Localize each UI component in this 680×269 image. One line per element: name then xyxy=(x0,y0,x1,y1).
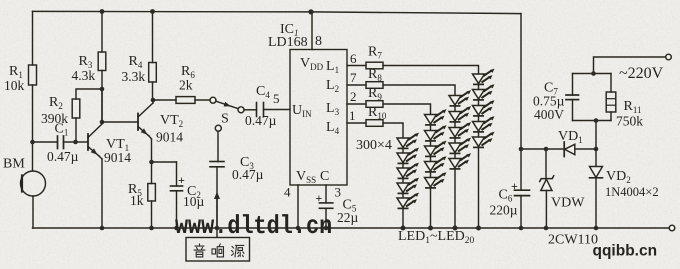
resistor R4 xyxy=(149,12,157,101)
capacitor C6 xyxy=(515,149,530,228)
svg-text:10k: 10k xyxy=(4,78,25,93)
wire BM top xyxy=(32,142,34,171)
LED group D1-D20 xyxy=(397,69,495,209)
transistor VT2 xyxy=(138,100,153,162)
LED D3 (column 1) xyxy=(397,163,419,179)
wire pin 4 VSS xyxy=(297,185,299,228)
svg-text:9014: 9014 xyxy=(156,130,183,145)
svg-text:2CW110: 2CW110 xyxy=(548,233,598,248)
LED D10 (column 2) xyxy=(425,172,447,188)
LED D4 (column 1) xyxy=(397,178,419,194)
resistor R3 xyxy=(98,12,106,123)
microphone BM xyxy=(21,171,46,228)
LED D15 (column 3) xyxy=(449,153,471,169)
LED D7 (column 2) xyxy=(425,125,447,141)
resistor R5 xyxy=(148,162,156,228)
audio source label 音响源 xyxy=(194,244,244,257)
wire base VT1 xyxy=(76,141,89,143)
LED D8 (column 2) xyxy=(425,141,447,157)
capacitor C7 xyxy=(566,74,579,121)
svg-text:+: + xyxy=(316,191,323,205)
terminal bottom right xyxy=(669,225,675,231)
LED D11 (column 3) xyxy=(449,90,471,106)
wire VD1 to C7/R11 xyxy=(595,121,597,150)
wire C7 R11 parallel top/bottom xyxy=(573,73,612,75)
svg-text:6: 6 xyxy=(350,51,357,66)
svg-text:BM: BM xyxy=(3,157,25,172)
svg-text:0.47µ: 0.47µ xyxy=(232,167,264,182)
wire 220V live xyxy=(594,57,666,74)
diode VD2 xyxy=(590,149,603,228)
LED D14 (column 3) xyxy=(449,138,471,154)
wire power feed vertical xyxy=(520,14,522,149)
wire rectifier node horizontal xyxy=(521,148,596,150)
wire LED column 4 xyxy=(478,74,480,228)
diode VD1 xyxy=(564,142,575,157)
LED D12 (column 3) xyxy=(449,106,471,122)
arrow audio source to node xyxy=(214,192,220,238)
svg-text:3.3k: 3.3k xyxy=(122,69,146,84)
terminal 220V top xyxy=(666,54,672,60)
resistor R8 xyxy=(347,82,455,96)
svg-text:1: 1 xyxy=(349,108,356,123)
resistor R1 xyxy=(29,11,37,142)
LED D2 (column 1) xyxy=(397,148,419,164)
wire pin 8 VDD xyxy=(311,12,313,50)
LED D5 (column 1) xyxy=(397,193,419,209)
svg-text:750k: 750k xyxy=(616,114,643,129)
wire top rail xyxy=(33,11,522,13)
svg-text:+: + xyxy=(178,173,185,187)
svg-text:10µ: 10µ xyxy=(183,194,205,209)
resistor R11 xyxy=(606,74,616,121)
svg-text:qqibb.cn: qqibb.cn xyxy=(593,243,658,260)
LED D18 (column 4) xyxy=(473,100,495,116)
svg-text:9014: 9014 xyxy=(104,150,131,165)
svg-text:0.47µ: 0.47µ xyxy=(245,113,277,128)
LED D17 (column 4) xyxy=(473,84,495,100)
resistor R10 xyxy=(347,120,403,138)
audio source box xyxy=(186,238,250,262)
capacitor C4 xyxy=(244,103,290,117)
wire LED column 3 xyxy=(454,96,456,229)
capacitor C3 xyxy=(210,131,224,228)
svg-text:2k: 2k xyxy=(179,78,193,93)
LED D9 (column 2) xyxy=(425,156,447,172)
transistor VT1 xyxy=(88,89,102,228)
zener VDW 2CW110 xyxy=(540,149,554,228)
svg-text:220µ: 220µ xyxy=(490,203,518,218)
IC IC1 LD168 box xyxy=(290,50,347,186)
LED D6 (column 2) xyxy=(425,109,447,125)
svg-text:1k: 1k xyxy=(130,193,144,208)
svg-text:~220V: ~220V xyxy=(619,65,664,82)
svg-text:+: + xyxy=(511,179,518,193)
svg-text:LD168: LD168 xyxy=(268,35,308,50)
svg-text:1N4004×2: 1N4004×2 xyxy=(605,185,659,199)
svg-text:4.3k: 4.3k xyxy=(72,68,96,83)
capacitor C2 xyxy=(152,162,183,228)
switch S xyxy=(210,97,244,131)
svg-text:3: 3 xyxy=(335,185,342,200)
resistor R2 xyxy=(72,89,102,142)
resistor R6 xyxy=(153,97,210,104)
LED D19 (column 4) xyxy=(473,116,495,132)
svg-text:400V: 400V xyxy=(534,107,564,122)
svg-text:300×4: 300×4 xyxy=(356,138,392,153)
svg-text:4: 4 xyxy=(284,185,291,200)
svg-text:C: C xyxy=(320,169,329,184)
svg-text:www.dltdl.cn: www.dltdl.cn xyxy=(175,212,332,241)
svg-text:S: S xyxy=(221,112,229,127)
wire LED column 2 xyxy=(430,115,432,229)
capacitor C1 xyxy=(33,136,76,149)
svg-text:5: 5 xyxy=(273,91,280,106)
svg-text:8: 8 xyxy=(315,34,322,49)
LED D1 (column 1) xyxy=(397,133,419,149)
wire bottom rail xyxy=(33,227,670,229)
wire LED column 1 xyxy=(402,138,404,228)
svg-text:2: 2 xyxy=(350,89,357,104)
LED D20 (column 4) xyxy=(473,132,495,148)
svg-text:LED1~LED20: LED1~LED20 xyxy=(398,229,475,246)
resistor R9 xyxy=(347,101,431,115)
svg-text:VDW: VDW xyxy=(551,196,585,211)
LED D16 (column 4) xyxy=(473,69,495,85)
LED D13 (column 3) xyxy=(449,122,471,138)
capacitor C5 on pin 3 xyxy=(319,185,332,228)
svg-text:0.47µ: 0.47µ xyxy=(47,149,79,164)
resistor R7 xyxy=(347,62,479,74)
svg-text:22µ: 22µ xyxy=(337,210,359,225)
wire base VT2 xyxy=(102,121,138,123)
svg-text:7: 7 xyxy=(350,70,357,85)
